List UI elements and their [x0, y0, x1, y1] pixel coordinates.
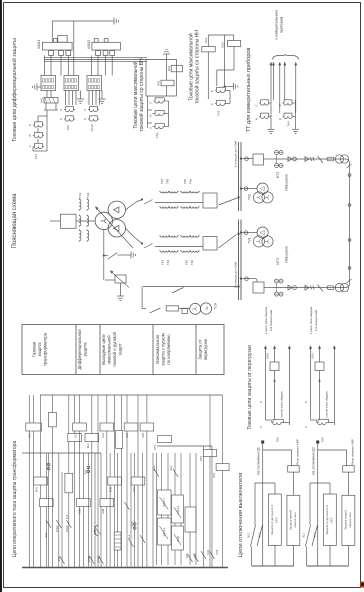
svg-text:КL6: КL6: [141, 433, 145, 438]
svg-text:На отключение Q2: На отключение Q2: [312, 447, 316, 475]
svg-text:КQС2 1: КQС2 1: [163, 498, 166, 507]
svg-text:КSG1: КSG1: [56, 525, 59, 532]
svg-text:Измерения: Измерения: [285, 174, 289, 191]
svg-text:КН4: КН4: [101, 508, 105, 514]
svg-text:КТ2: КТ2: [132, 486, 136, 491]
svg-text:КАW2: КАW2: [87, 40, 91, 49]
svg-text:КА2: КА2: [221, 42, 225, 48]
svg-text:КТ3: КТ3: [199, 456, 203, 461]
svg-text:Измерения: Измерения: [285, 246, 289, 263]
svg-text:ТА10: ТА10: [90, 124, 94, 131]
svg-text:Поясняющая схема: Поясняющая схема: [12, 193, 18, 249]
svg-text:SХ5: SХ5: [186, 553, 189, 558]
svg-text:КLV1: КLV1: [177, 536, 180, 542]
svg-text:ТА2: ТА2: [155, 132, 159, 138]
svg-text:КАW2: КАW2: [98, 555, 101, 562]
svg-text:Токовые цепи максимальной: Токовые цепи максимальной: [132, 61, 139, 128]
svg-text:Дифференциальная: Дифференциальная: [77, 330, 82, 370]
svg-text:ТА2: ТА2: [86, 192, 90, 198]
svg-text:трансформатора: трансформатора: [43, 332, 48, 366]
svg-text:КQС1.1: КQС1.1: [177, 505, 180, 514]
svg-text:Защита от дуговых К.З: Защита от дуговых К.З: [270, 505, 274, 535]
svg-text:В: В: [149, 114, 153, 116]
svg-text:Выходные цепи: Выходные цепи: [101, 334, 106, 365]
svg-text:КТ4: КТ4: [212, 473, 216, 478]
svg-text:Реле запрета АВР: Реле запрета АВР: [296, 439, 300, 464]
svg-text:В: В: [28, 134, 32, 136]
svg-text:КА1: КА1: [152, 465, 156, 470]
svg-text:КL5: КL5: [58, 556, 61, 561]
svg-text:ТА4: ТА4: [166, 260, 170, 265]
svg-text:А: А: [28, 145, 32, 147]
svg-text:защита: защита: [37, 342, 42, 357]
svg-text:КАL: КАL: [40, 97, 44, 103]
svg-text:КН6: КН6: [109, 487, 113, 493]
svg-text:защита с пуском: защита с пуском: [161, 333, 166, 365]
svg-text:ТА3: ТА3: [217, 110, 221, 116]
svg-text:КА1: КА1: [204, 37, 208, 43]
svg-text:КLV2: КLV2: [194, 553, 197, 559]
svg-text:КН1: КН1: [35, 487, 39, 493]
svg-text:КА1: КА1: [157, 80, 161, 86]
svg-text:ТА1: ТА1: [78, 192, 82, 198]
svg-text:ТА1: ТА1: [34, 154, 38, 160]
svg-text:КL1: КL1: [74, 433, 78, 438]
svg-text:ТА5: ТА5: [185, 260, 189, 265]
svg-text:к реле тока обдува: к реле тока обдува: [325, 391, 329, 418]
svg-text:ТV2: ТV2: [248, 194, 252, 200]
svg-text:ТСН: ТСН: [214, 302, 218, 309]
svg-text:ТА5: ТА5: [183, 179, 187, 184]
svg-text:максимальной: максимальной: [107, 335, 112, 364]
svg-text:SХ2: SХ2: [85, 469, 88, 474]
svg-text:Реле запрета АВР: Реле запрета АВР: [351, 439, 355, 464]
svg-text:КН3: КН3: [77, 508, 81, 514]
svg-text:приборам: приборам: [280, 16, 284, 33]
svg-text:защита: защита: [83, 342, 88, 357]
svg-text:КАW1: КАW1: [37, 40, 41, 49]
svg-text:Максимальная: Максимальная: [155, 335, 160, 364]
svg-text:токовой защиты ср стороны ВН: токовой защиты ср стороны ВН: [138, 58, 145, 132]
svg-text:А: А: [259, 426, 263, 428]
svg-text:ТА6: ТА6: [190, 260, 194, 265]
svg-text:ТА3: ТА3: [161, 260, 165, 265]
svg-text:ТА7: ТА7: [160, 179, 164, 184]
svg-text:1-й секции шин: 1-й секции шин: [314, 310, 318, 332]
svg-text:КL3: КL3: [86, 443, 90, 448]
svg-text:ТА0: ТА0: [276, 437, 280, 443]
svg-text:к реле тока защиты: к реле тока защиты: [309, 307, 313, 334]
svg-text:А: А: [83, 118, 87, 120]
svg-text:SХ3: SХ3: [131, 521, 134, 526]
svg-text:Токовые цепи максимальной: Токовые цепи максимальной: [188, 33, 195, 100]
svg-text:ТА4: ТА4: [287, 121, 291, 127]
svg-text:КА3: КА3: [206, 549, 210, 554]
svg-text:Защита от: Защита от: [198, 339, 203, 359]
svg-text:2-й секции шин: 2-й секции шин: [269, 310, 273, 332]
svg-text:по напряжению: по напряжению: [166, 334, 171, 364]
svg-text:КL2: КL2: [313, 532, 317, 537]
svg-text:к реле тока обдува: к реле тока обдува: [280, 391, 284, 418]
svg-text:Защита второй: Защита второй: [344, 510, 348, 530]
svg-text:секции шин: секции шин: [348, 512, 352, 527]
svg-text:КQС1 1: КQС1 1: [163, 527, 166, 536]
svg-text:КL3: КL3: [66, 514, 69, 519]
svg-text:Защита от дуговых К.З: Защита от дуговых К.З: [325, 505, 329, 535]
svg-text:2-я секция шин 10кВ: 2-я секция шин 10кВ: [234, 141, 238, 168]
svg-text:МТЗ: МТЗ: [276, 172, 280, 179]
svg-text:КА2: КА2: [167, 65, 171, 71]
svg-text:КSG2: КSG2: [66, 525, 69, 532]
svg-text:КL2: КL2: [128, 534, 131, 539]
svg-text:1-я секция шин 10кВ: 1-я секция шин 10кВ: [234, 262, 238, 289]
svg-text:КТ1: КТ1: [94, 529, 97, 534]
svg-text:ТА6: ТА6: [189, 179, 193, 184]
svg-text:КТ1: КТ1: [153, 444, 157, 449]
svg-text:КА4: КА4: [215, 549, 219, 554]
svg-text:ТА0: ТА0: [321, 437, 325, 443]
svg-text:Цепи отключения выключателя: Цепи отключения выключателя: [238, 473, 244, 558]
svg-text:МТЗ: МТЗ: [276, 258, 280, 265]
svg-text:КРУ: КРУ: [275, 517, 279, 522]
svg-text:к измерительным: к измерительным: [275, 10, 279, 40]
svg-text:Газовая: Газовая: [32, 342, 37, 357]
svg-text:ТА6: ТА6: [66, 125, 70, 131]
svg-text:ТА8: ТА8: [166, 179, 170, 184]
svg-text:КА4: КА4: [266, 353, 270, 359]
svg-text:КL2: КL2: [258, 532, 262, 537]
svg-text:А: А: [278, 118, 282, 120]
svg-text:С: С: [278, 104, 282, 106]
svg-text:ТТ для измерительных приборов: ТТ для измерительных приборов: [246, 48, 252, 133]
svg-text:КL5: КL5: [125, 433, 129, 438]
svg-text:А: А: [59, 118, 63, 120]
svg-text:ТV1: ТV1: [248, 237, 252, 243]
svg-text:А: А: [255, 118, 259, 120]
svg-text:секции шин: секции шин: [293, 512, 297, 527]
svg-text:КL1: КL1: [247, 532, 251, 537]
svg-text:Токовые цепи дифференциальной: Токовые цепи дифференциальной защиты: [11, 38, 18, 142]
svg-text:токовой защиты со стороны НН: токовой защиты со стороны НН: [194, 30, 201, 104]
svg-text:к реле тока защиты: к реле тока защиты: [264, 307, 268, 334]
svg-text:токовой и дуговой: токовой и дуговой: [112, 331, 117, 367]
svg-text:КАW1: КАW1: [88, 555, 91, 562]
svg-text:КL1: КL1: [302, 532, 306, 537]
svg-text:SХ1: SХ1: [45, 532, 48, 537]
svg-text:А: А: [210, 103, 214, 105]
svg-text:КL7: КL7: [28, 433, 32, 438]
svg-text:А: А: [304, 426, 308, 428]
svg-text:Токовые цепи защиты от перегру: Токовые цепи защиты от перегрузки: [247, 345, 253, 430]
svg-text:КА1: КА1: [169, 465, 173, 470]
svg-text:защит: защит: [118, 343, 123, 355]
svg-text:перегрузки: перегрузки: [203, 338, 208, 360]
svg-text:Защита первой: Защита первой: [289, 510, 293, 530]
svg-text:На отключение Q1: На отключение Q1: [257, 447, 261, 475]
svg-text:КА3: КА3: [311, 353, 315, 359]
svg-text:Zg: Zg: [205, 306, 209, 310]
svg-text:С: С: [255, 104, 259, 106]
svg-text:Цепи оперативного тока защиты: Цепи оперативного тока защиты трансформа…: [12, 441, 18, 558]
svg-text:КL4: КL4: [101, 433, 105, 438]
svg-text:КРУ: КРУ: [330, 517, 334, 522]
svg-text:А: А: [149, 127, 153, 129]
